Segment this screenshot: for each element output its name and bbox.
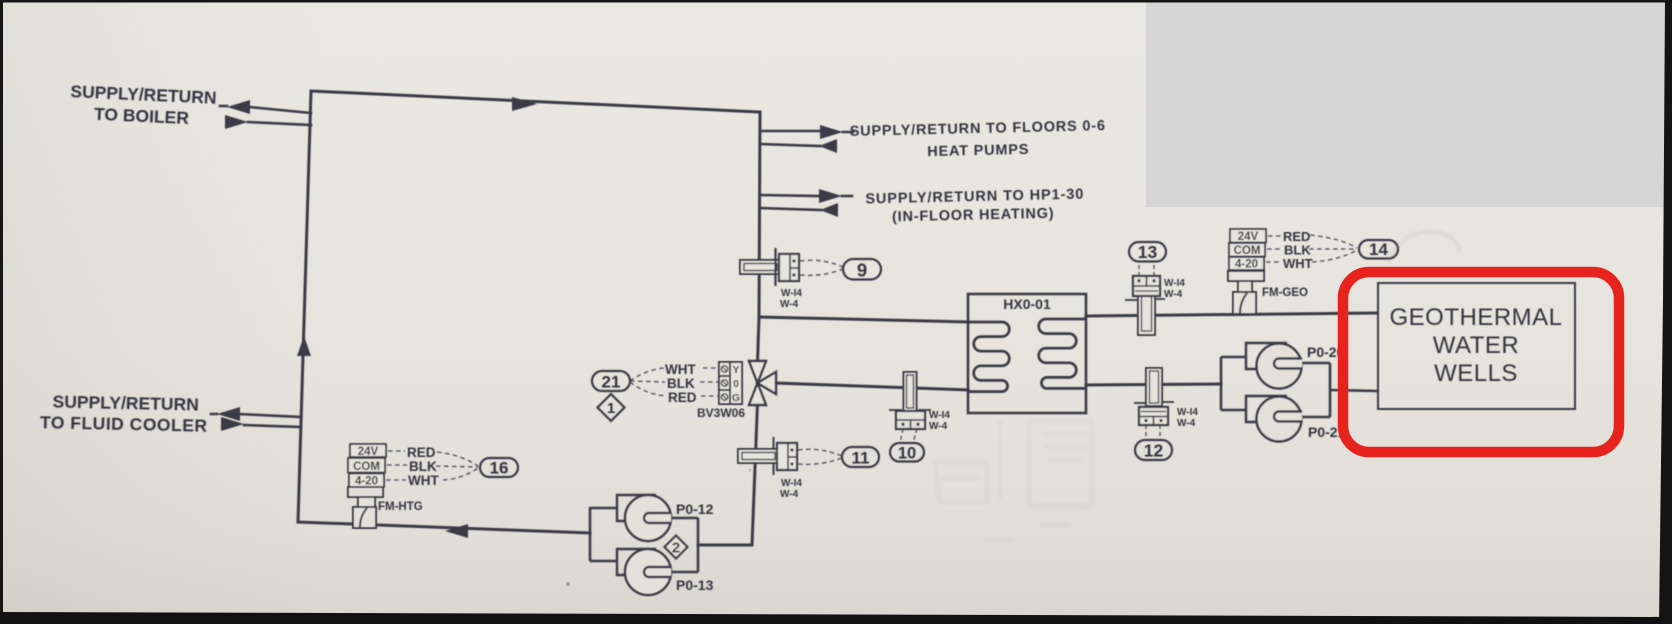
pump P0-12: [617, 495, 671, 541]
svg-text:4-20: 4-20: [355, 476, 378, 488]
svg-text:16: 16: [490, 459, 509, 478]
diamond tag 2: [665, 536, 688, 559]
svg-text:SUPPLY/RETURN: SUPPLY/RETURN: [52, 392, 199, 415]
pump header P0-20/P0-21: [1221, 357, 1377, 417]
svg-text:G: G: [732, 392, 740, 404]
red annotation circle: [1343, 272, 1619, 452]
terminal table 24V/COM/4-20 (FM-GEO): [1229, 229, 1266, 270]
svg-text:9: 9: [857, 260, 867, 281]
HX left coil: [968, 322, 1009, 392]
svg-text:1: 1: [607, 400, 615, 417]
faint pencil smudge above red box: [1388, 232, 1460, 262]
wire: floors return line: [760, 144, 820, 146]
flow meter FM-HTG: [348, 487, 383, 528]
wire: boiler supply stub: [220, 105, 227, 108]
tag oval 14: [1359, 240, 1398, 259]
valve BV3W06 (3-way): [749, 361, 776, 405]
svg-text:FM-GEO: FM-GEO: [1262, 287, 1308, 299]
svg-text:2: 2: [672, 540, 680, 557]
svg-text:21: 21: [602, 373, 621, 392]
wire: boiler return line: [248, 122, 311, 125]
dashed wires to tag 9: [800, 260, 843, 275]
svg-text:WHT: WHT: [665, 362, 696, 377]
svg-text:24V: 24V: [358, 446, 379, 458]
wire: hp supply stub: [842, 195, 852, 198]
dashed wires to tag 16: [386, 451, 478, 480]
tag oval 11: [842, 447, 879, 467]
svg-text:W-I4: W-I4: [1177, 407, 1198, 418]
dashed wires to tag 13: [1139, 262, 1154, 276]
wire: boiler supply line: [249, 107, 311, 113]
svg-text:24V: 24V: [1238, 231, 1259, 243]
arrowhead: floors return (left): [819, 139, 837, 153]
photo black edges: [0, 0, 1672, 3]
wire: main riser right (down to valve): [758, 112, 761, 363]
svg-text:FM-HTG: FM-HTG: [378, 501, 423, 513]
tag oval 9: [843, 259, 881, 280]
wire: valve right port to HX bottom-left: [776, 383, 968, 390]
label: SUPPLY/RETURN TO BOILER: [69, 81, 217, 129]
svg-text:RED: RED: [668, 390, 697, 405]
wire: HX right top to geothermal box: [1086, 313, 1377, 316]
svg-text:W-4: W-4: [929, 421, 948, 432]
svg-text:10: 10: [898, 445, 916, 463]
wire: main loop left edge: [298, 91, 311, 522]
pump P0-20: [1246, 343, 1302, 389]
svg-text:COM: COM: [353, 461, 380, 473]
tag oval 16: [480, 458, 518, 477]
svg-text:14: 14: [1369, 240, 1388, 259]
diamond tag 1: [598, 394, 625, 421]
wire: branch to HX top-left: [759, 317, 968, 322]
scanner gray patch top right: [1146, 2, 1669, 207]
svg-text:WHT: WHT: [408, 473, 439, 488]
arrowhead: boiler return (right): [225, 115, 248, 129]
svg-text:WATER: WATER: [1433, 332, 1520, 359]
svg-text:W-I4: W-I4: [781, 478, 802, 489]
tag oval 13: [1129, 242, 1166, 262]
dashed wires to tag 14: [1266, 235, 1357, 262]
thermowell sensor 11 (horizontal): [738, 437, 797, 475]
arrowhead: hp return (left): [820, 203, 838, 217]
svg-text:COM: COM: [1234, 245, 1261, 257]
svg-text:13: 13: [1138, 242, 1158, 262]
dashed wires to tag 10: [900, 429, 917, 443]
svg-text:W-4: W-4: [780, 299, 799, 310]
svg-text:HX0-01: HX0-01: [1003, 296, 1051, 312]
tag oval 10: [890, 443, 924, 462]
svg-text:Y: Y: [732, 364, 739, 376]
svg-text:BV3W06: BV3W06: [697, 406, 745, 420]
svg-text:HEAT PUMPS: HEAT PUMPS: [927, 142, 1029, 160]
dashed wires to tag 11: [798, 449, 842, 464]
terminal block on valve (Y/O/G): [719, 362, 742, 404]
svg-text:BLK: BLK: [409, 459, 437, 474]
tag oval 12: [1135, 440, 1172, 460]
wire: fluid cooler return line: [244, 425, 301, 427]
svg-text:12: 12: [1144, 441, 1164, 461]
wire: main loop bottom pipe: [298, 522, 590, 533]
svg-text:W-I4: W-I4: [1164, 278, 1185, 289]
arrowhead: boiler supply (left): [227, 100, 250, 114]
dashed wires valve labels to terminal block: [630, 368, 719, 396]
arrowhead: loop top (right): [512, 97, 537, 111]
thermowell sensor 9 (horizontal): [740, 248, 799, 286]
heat exchanger HX0-01 box: [968, 294, 1086, 413]
svg-text:W-4: W-4: [1164, 289, 1183, 300]
arrowhead: fluid cooler return (right): [221, 417, 244, 431]
pump header P0-12/P0-13: [590, 507, 698, 572]
wire: floors supply line: [760, 130, 821, 133]
terminal table 24V/COM/4-20 (FM-HTG): [348, 444, 386, 487]
arrowhead: fluid cooler supply (left): [217, 407, 240, 421]
svg-text:11: 11: [852, 449, 870, 468]
wire: floors supply stub: [843, 131, 853, 134]
svg-text:W-4: W-4: [1177, 418, 1196, 429]
wire: HX right bottom to P0-20/21 header: [1086, 384, 1221, 385]
wire: valve bottom down to pump loop: [698, 403, 758, 545]
tag oval 21: [592, 371, 630, 391]
svg-text:4-20: 4-20: [1235, 259, 1258, 271]
geothermal water wells box: [1378, 283, 1575, 409]
svg-text:W-4: W-4: [780, 489, 799, 500]
svg-text:GEOTHERMAL: GEOTHERMAL: [1389, 304, 1562, 331]
label: SUPPLY/RETURN TO FLUID COOLER: [40, 391, 208, 436]
svg-text:P0-12: P0-12: [676, 501, 714, 517]
wire: main loop top edge: [311, 91, 760, 112]
svg-text:WHT: WHT: [1283, 256, 1313, 271]
svg-text:W-I4: W-I4: [781, 288, 802, 299]
wire: hp return line: [760, 208, 821, 210]
arrowhead: loop left edge (up): [297, 336, 311, 356]
svg-text:WELLS: WELLS: [1434, 360, 1518, 387]
svg-text:P0-13: P0-13: [676, 577, 714, 593]
svg-text:RED: RED: [407, 445, 436, 460]
dashed wires to tag 12: [1146, 425, 1160, 440]
arrowhead: bottom pipe (left): [445, 524, 468, 538]
thermowell sensor 13 (vertical, box above): [1125, 276, 1165, 335]
flow meter FM-GEO: [1228, 271, 1264, 314]
thermowell sensor 10 (vertical, box below): [889, 372, 931, 429]
svg-text:TO FLUID COOLER: TO FLUID COOLER: [40, 412, 208, 436]
wire: fluid cooler supply line: [239, 414, 301, 417]
arrowhead: floors supply (right): [820, 125, 843, 139]
arrowhead: hp supply (right): [819, 189, 842, 203]
label: SUPPLY/RETURN TO FLOORS 0-6 HEAT PUMPS: [850, 118, 1107, 162]
faint bleed-through ghosts: [935, 420, 1092, 540]
svg-text:W-I4: W-I4: [929, 410, 950, 421]
pump P0-13: [617, 549, 671, 595]
HX right coil: [1039, 319, 1086, 388]
svg-text:0: 0: [733, 378, 739, 390]
wire: fluid cooler stub: [211, 413, 217, 416]
svg-text:BLK: BLK: [667, 376, 695, 391]
wire: hp supply line: [760, 195, 820, 196]
thermowell sensor 12 (vertical, box below): [1134, 368, 1174, 425]
pump P0-21: [1246, 396, 1302, 442]
label: SUPPLY/RETURN TO HP1-30 (IN-FLOOR HEATING): [865, 187, 1085, 226]
